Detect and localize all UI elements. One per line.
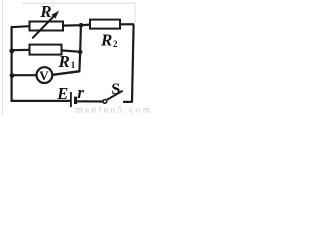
svg-text:R: R [100, 31, 112, 50]
label S (switch) [111, 81, 120, 98]
wire left to voltmeter [12, 74, 36, 76]
junction node top [79, 23, 84, 28]
junction node left R1 branch [9, 49, 14, 54]
switch S blade [107, 91, 123, 100]
label r (internal resistance) [77, 83, 84, 102]
svg-text:R: R [39, 2, 51, 21]
svg-text:1: 1 [71, 60, 76, 70]
scan left border artifact [2, 0, 4, 114]
wire top-left to rheostat [11, 26, 30, 27]
resistor R2 body [90, 20, 120, 29]
wire bottom-right stub to switch contact [123, 101, 133, 103]
scan right faint line [134, 3, 136, 24]
svg-text:V: V [39, 68, 49, 83]
label R1 [58, 52, 76, 71]
wire bottom-left corner [12, 99, 70, 101]
svg-text:S: S [111, 81, 120, 98]
svg-text:2: 2 [113, 39, 118, 49]
label E (battery emf) [56, 84, 68, 103]
wire middle vertical (junction to V branch) [52, 25, 81, 75]
battery cell short thick plate [74, 97, 77, 104]
battery cell long plate [70, 92, 72, 107]
label R2 [100, 31, 118, 50]
voltmeter V [37, 67, 53, 83]
wire R1 to junction [62, 50, 81, 51]
switch S pivot [103, 100, 107, 104]
watermark manfen5.com [76, 105, 153, 115]
rheostat R body [30, 22, 64, 31]
svg-text:E: E [56, 84, 68, 103]
svg-text:R: R [58, 52, 70, 71]
wire junction to R2 [81, 24, 90, 27]
svg-text:manfen5.com: manfen5.com [76, 105, 153, 114]
wire battery to switch [77, 100, 103, 102]
wire right vertical [132, 24, 134, 101]
wire voltmeter to corner [52, 71, 79, 75]
junction node left V branch [10, 73, 15, 78]
resistor R1 body [30, 45, 62, 55]
wire rheostat to junction [63, 24, 81, 27]
junction node right R1 branch [78, 50, 83, 55]
wire left vertical [11, 27, 13, 100]
scan top border artifact [22, 2, 136, 4]
rheostat arrow [32, 11, 59, 39]
wire R2 to right corner [120, 23, 134, 25]
label R (rheostat) [39, 2, 51, 21]
svg-text:r: r [77, 83, 84, 102]
wire left to R1 [12, 49, 30, 52]
